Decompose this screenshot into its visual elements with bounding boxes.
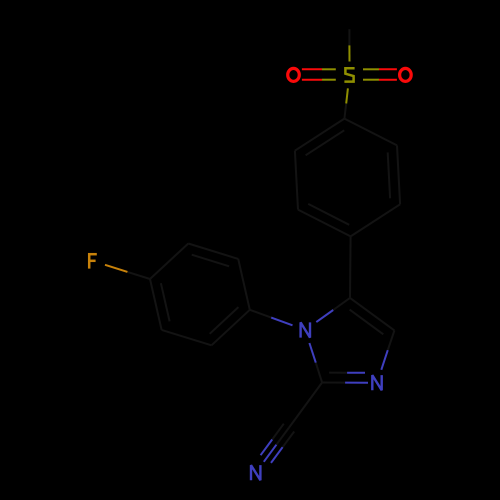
ring A edge LL-UL: [295, 151, 298, 210]
bond ringB V4 - N1: [250, 310, 293, 326]
bond F-V1: [105, 265, 150, 279]
nitrile C6#N7 axis line: [264, 428, 289, 462]
ring A edge UR-LR inner line: [388, 152, 390, 198]
bond S=O right line1: [363, 68, 397, 70]
ring A edge LR-B: [351, 204, 401, 236]
imidazole bond C2=N3 axis: [322, 382, 368, 384]
bond CH3-S (methyl to sulfur): [348, 29, 350, 61]
atom label O (left sulfonyl oxygen): [288, 68, 300, 81]
atom label S (sulfonyl sulfur): [344, 68, 354, 81]
imidazole bond N3-C4: [381, 330, 394, 369]
ring B edge V1-TL: [150, 244, 188, 280]
ring B edge BL-V1 inner line: [161, 283, 170, 321]
bond S=O left line2: [302, 79, 336, 81]
atom label N (nitrile nitrogen): [251, 465, 260, 480]
imidazole bond N1-C2: [309, 343, 322, 383]
ring B edge BR-BL: [162, 330, 212, 345]
ring B edge BL-V1 (double outer): [150, 279, 162, 330]
imidazole bond C4=C5 axis: [350, 298, 394, 331]
bond S-C(ring A top): [344, 88, 348, 118]
ring A edge T-UR: [344, 119, 397, 146]
bond ringA B - C5: [349, 236, 352, 298]
ring B edge TR-V4: [238, 259, 250, 310]
ring A edge B-LL inner line: [308, 204, 349, 225]
ring A edge UR-LR (double outer): [397, 145, 400, 204]
bond C2-C6 (to nitrile C): [289, 383, 322, 428]
atom label N3 (imidazole N3): [372, 375, 381, 390]
atom label O (right sulfonyl oxygen): [400, 68, 412, 81]
ring B edge TL-TR inner line: [192, 255, 229, 267]
ring A edge B-LL (double outer): [298, 210, 351, 237]
imidazole bond C2=N3 inner line: [329, 372, 365, 374]
nitrile C6#N7 right line: [261, 424, 284, 456]
imidazole bond C4=C5 inner line: [350, 310, 384, 335]
atom label F (fluorine): [88, 253, 91, 269]
imidazole bond C5-N1: [316, 298, 350, 322]
nitrile C6#N7 left line: [271, 432, 294, 463]
ring A edge UL-T (double outer): [295, 119, 345, 151]
bond S=O right line2: [363, 79, 397, 81]
ring B edge TL-TR (double outer): [188, 244, 238, 259]
ring A edge UL-T inner line: [306, 130, 345, 155]
ring B edge V4-BR (double outer): [212, 310, 250, 346]
bond S=O left line1: [302, 68, 336, 70]
ring B edge V4-BR inner line: [210, 307, 239, 334]
atom label N1 (imidazole N1): [301, 322, 310, 337]
